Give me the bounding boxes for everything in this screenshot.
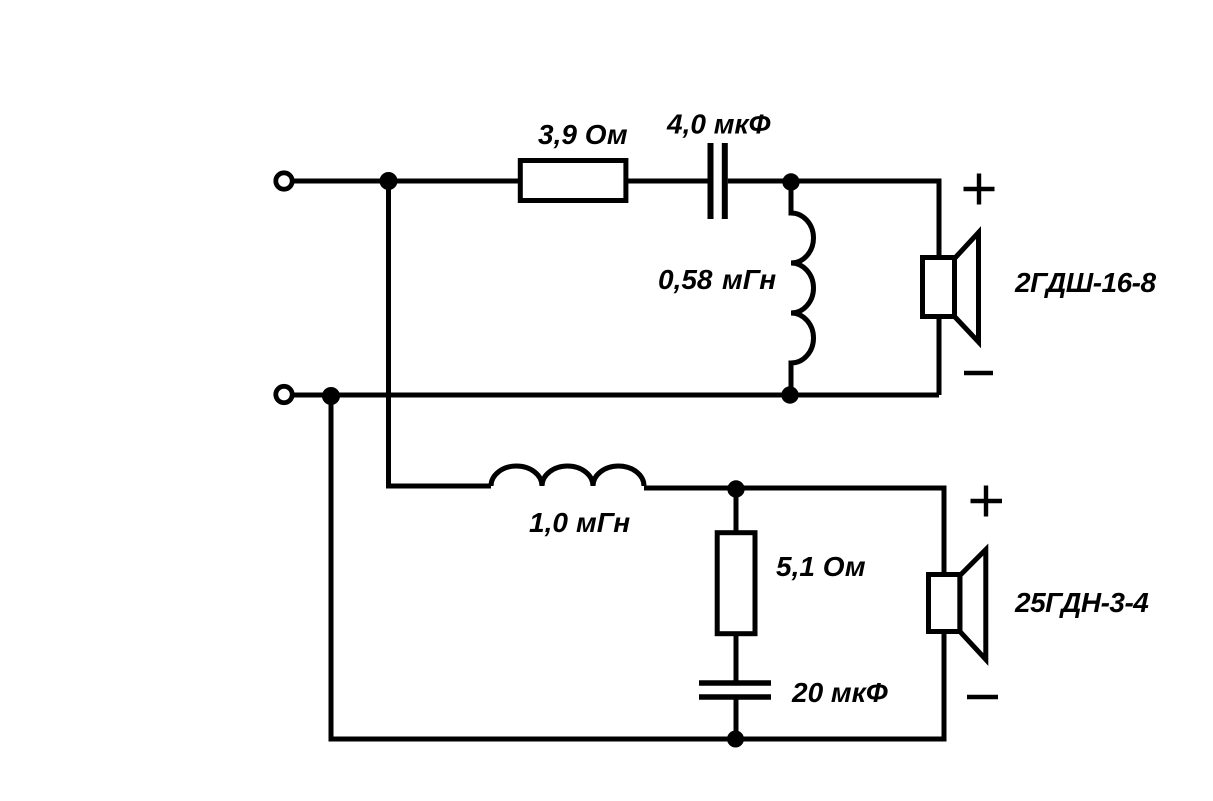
capacitor C1 left plate [708, 143, 714, 219]
capacitor C1 right plate [722, 143, 728, 219]
node D junction dot [322, 387, 340, 405]
wire R2 to capacitor C2 [734, 634, 739, 683]
svg-text:0,58мГн: 0,58мГн [658, 264, 776, 295]
svg-text:25ГДН-3-4: 25ГДН-3-4 [1014, 587, 1149, 618]
node A junction dot [380, 172, 398, 190]
resistor R2 [717, 533, 755, 634]
input terminal IN+ (top left) [276, 173, 292, 189]
inductor L1 [791, 182, 814, 395]
wire C2 to bottom rail [734, 697, 739, 739]
wire speaker BA1 minus lead [937, 317, 942, 395]
minus sign BA2 [967, 695, 998, 699]
loudspeaker BA2 magnet box [929, 575, 960, 632]
wire bottom rail of first circuit [294, 393, 939, 398]
node E junction dot [727, 480, 744, 497]
wire node D down, bottom rail of second circuit, up to speaker BA2 [331, 396, 944, 739]
wire IN+ to resistor R1 [294, 179, 519, 184]
loudspeaker BA1 magnet box [923, 258, 955, 317]
svg-text:20 мкФ: 20 мкФ [791, 677, 888, 708]
resistor R1 [520, 161, 626, 201]
svg-text:5,1 Ом: 5,1 Ом [776, 551, 866, 582]
wire L2 to speaker BA2 plus terminal [644, 488, 944, 574]
plus sign BA2 [971, 486, 1003, 517]
wire C1 to speaker BA1 plus terminal [728, 181, 939, 255]
svg-text:4,0 мкФ: 4,0 мкФ [666, 108, 771, 139]
wire node E to resistor R2 [734, 488, 739, 533]
capacitor C2 top plate [699, 680, 771, 686]
loudspeaker BA1 cone [955, 233, 979, 343]
wire R1 to capacitor C1 [626, 179, 708, 184]
capacitor C2 bottom plate [699, 694, 771, 700]
node F junction dot [727, 731, 744, 748]
svg-text:3,9 Ом: 3,9 Ом [538, 119, 628, 150]
inductor L2 [491, 466, 644, 486]
node C junction dot [781, 386, 798, 403]
minus sign BA1 [964, 371, 993, 375]
svg-text:1,0мГн: 1,0мГн [529, 507, 630, 538]
input terminal IN- (bottom left) [276, 386, 292, 402]
loudspeaker BA2 cone [960, 550, 986, 660]
node B junction dot [782, 173, 799, 190]
wire node A down and right to inductor L2 [389, 181, 492, 486]
svg-text:2ГДШ-16-8: 2ГДШ-16-8 [1014, 267, 1156, 298]
plus sign BA1 [964, 174, 995, 205]
